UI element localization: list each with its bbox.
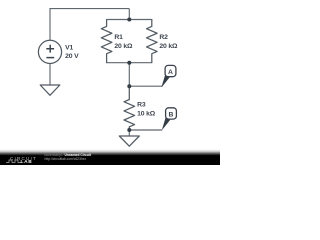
svg-text:R3: R3 (137, 102, 146, 109)
ground GND1 (40, 85, 60, 95)
wire V1 top lead (49, 9, 51, 41)
svg-text:B: B (169, 112, 174, 119)
wire top rail (49, 8, 129, 10)
footer url line (45, 157, 87, 161)
svg-text:R2: R2 (159, 34, 168, 41)
node flag A box (165, 65, 176, 76)
node A junction (127, 84, 131, 88)
voltage source V1 (38, 40, 61, 63)
footer credit line (45, 153, 91, 157)
V1 minus sign (46, 57, 54, 59)
node flag B box (166, 108, 177, 119)
node flag B tail (162, 117, 170, 130)
svg-text:A: A (168, 69, 173, 76)
wire top bar (107, 19, 152, 22)
svg-text:V1: V1 (65, 44, 73, 51)
resistor R1 (101, 20, 112, 63)
svg-text:10 kΩ: 10 kΩ (137, 110, 156, 117)
svg-text:20 kΩ: 20 kΩ (159, 43, 178, 50)
wire V1 bottom lead (49, 64, 51, 86)
footer bar (0, 148, 220, 165)
svg-text:R1: R1 (114, 34, 123, 41)
wire B tap (129, 129, 162, 131)
node flag A tail (162, 74, 170, 87)
node B junction (127, 128, 131, 132)
V1 plus sign (46, 45, 54, 53)
footer logo waveform (6, 159, 22, 164)
wire bottom bar (107, 61, 152, 64)
wire A tap (129, 85, 162, 87)
svg-text:20 V: 20 V (65, 53, 79, 60)
resistor R2 (147, 20, 158, 63)
ground GND2 (119, 136, 139, 146)
footer logo LAB (21, 161, 33, 165)
svg-text:20 kΩ: 20 kΩ (114, 43, 133, 50)
node junction top (127, 18, 131, 22)
node junction bottom (127, 61, 131, 65)
footer logo CIRCUIT (10, 157, 37, 161)
wire R3 ground lead (128, 130, 130, 136)
wire middle drop (128, 63, 130, 86)
wire feed drop (128, 9, 130, 20)
resistor R3 (124, 86, 135, 130)
